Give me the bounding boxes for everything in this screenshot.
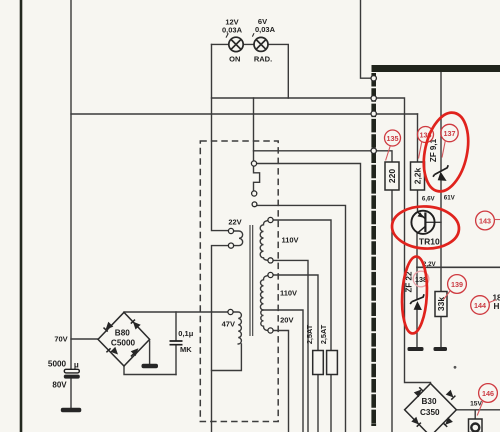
svg-text:143: 143 [479,216,491,225]
svg-text:6,6V: 6,6V [422,195,436,202]
svg-text:137: 137 [444,129,456,138]
B30 diode bottom-left [411,417,419,425]
label pointer slashes for lamps [226,33,254,37]
red hand-drawn ellipse around TR10 [391,205,460,250]
svg-text:110V: 110V [281,235,298,244]
wire: B30 right corner output 15V [456,410,500,419]
svg-text:C350: C350 [420,408,440,417]
svg-text:110V: 110V [280,288,297,297]
page border line left [20,0,23,432]
dashed mains enclosure box [200,141,278,422]
svg-text:0,03A: 0,03A [222,25,243,34]
wire: electrolytic bottom lead [70,379,72,408]
wire: secondary2 top to fuse1 column [273,275,318,432]
svg-text:0,1μ: 0,1μ [178,329,193,338]
svg-text:22V: 22V [228,217,241,226]
B80 diode top-right [133,322,141,330]
svg-text:135: 135 [387,134,399,143]
wire: TR10 base to ZF9,1 column [425,221,441,223]
terminal node secondary2 bottom (270.5,330.5) [268,328,273,333]
red annotation circle 146 [477,384,497,416]
wire: left supply vertical x71 [70,0,72,369]
svg-text:μ: μ [74,361,79,370]
svg-text:ZF 9,1: ZF 9,1 [429,138,438,162]
wire: 22V bottom to 47V tap vertical [212,246,229,312]
fuse F2 2,5AT [327,351,338,375]
svg-text:2,5AT: 2,5AT [305,324,314,344]
wire: branch y151 to 220 resistor [254,151,393,432]
red hand-drawn ellipse around ZF 9,1 / 137 [417,109,475,196]
switch contact middle (254.2,193.5) [252,191,257,196]
bridge rectifier B30 C350 [405,384,457,432]
svg-text:146: 146 [482,389,494,398]
terminal node 47V top (230.5,312) [228,309,233,314]
wire: emitter rail y267 to right edge [417,266,500,268]
switch contact top (254,163.5) [251,161,256,166]
wire: top-left feed into distribution strip [361,0,372,78]
terminal node 22V top (231,231) [228,228,233,233]
wire: secondary2 tap y310 [264,310,304,432]
bridge rectifier B80 C5000 [98,312,150,366]
lamp LA2 RAD [254,37,268,51]
wire: secondary1 top to fuse2 column [273,220,331,432]
junction node (373.7,150.8) [371,148,376,153]
zener diode ZF 9,1 [433,165,448,181]
red annotation circle 136 [418,127,434,159]
wire: primary chain down to page bottom [211,312,213,432]
wire: secondary2 bottom down [273,331,288,432]
junction node (373.7,98.3) [371,96,376,101]
svg-text:61V: 61V [444,194,456,201]
heavy supply bar top right [372,65,500,72]
output connector box 15V [469,419,483,432]
wire: lamp left vertical down to transformer primary [212,44,229,230]
svg-text:MK: MK [180,345,192,354]
B30 diode top-left [414,390,422,398]
ground below 33k [434,347,448,351]
wire: 70V feed to B80 [71,338,98,340]
B80 diode top-left [106,322,114,330]
junction node (373.7,113.7) [371,111,376,116]
fuse F1 2,5AT [313,351,324,375]
transformer primary 47V winding [233,312,241,344]
wire: switch bottom contact to right column [257,205,345,432]
wire: bridge B80 top to 47V terminal y312 [124,311,228,313]
svg-text:RAD.: RAD. [254,54,272,63]
svg-text:20V: 20V [280,315,293,324]
ground below 5000u capacitor [61,408,82,412]
wire: 0,1uF capacitor leads [175,312,177,375]
red annotation circle 144 [471,296,496,315]
red annotation circle 143 [476,211,500,230]
capacitor 0,1u MK plates [170,341,183,345]
wire: lamp loop [212,44,289,98]
wire: 2,2k lead down to TR10 emitter [417,114,419,212]
heavy dashed distribution strip x373.7 [371,73,376,425]
ground below B80 right corner [142,364,159,368]
svg-text:47V: 47V [222,319,235,328]
electrolytic capacitor 5000u 80V [64,369,80,378]
lamp LA1 ON [229,37,243,51]
wire: B80 bottom corner to 0,1uF bottom [124,366,176,375]
svg-text:0,03A: 0,03A [255,25,276,34]
transformer primary 22V winding [234,231,243,246]
wire: secondary1 bottom down [273,260,308,432]
voltage selector switch body [254,98,260,191]
transistor TR10 [411,211,434,234]
svg-text:144: 144 [474,301,486,310]
B80 diode bottom-right [131,348,139,356]
red annotation circle 139 [444,275,467,300]
wire: B80 right corner to ground [149,341,151,364]
svg-text:220: 220 [387,169,397,183]
svg-text:70V: 70V [54,335,67,344]
terminal node 22V bottom (231,245.6) [228,243,233,248]
B30 diode top-right [446,390,454,398]
transformer core [250,226,253,336]
svg-text:139: 139 [451,280,463,289]
wire: horizontal bus y98 to B30 feed [212,98,431,383]
ground below ZF22 [408,347,424,351]
svg-text:5000: 5000 [48,359,67,368]
svg-text:ON: ON [229,54,240,63]
terminal node secondary1 bottom (270.5,260.4) [268,258,273,263]
wire: horizontal bus y114 from x71 to 2,2k drop [71,113,418,115]
B30 diode bottom-right [445,417,453,425]
resistor R 220 [385,162,399,190]
wire: TR10 collector down to ZF22 and ground [416,233,418,346]
svg-text:B30: B30 [421,397,436,406]
wire: switch top contact to right column [257,164,361,432]
transformer secondary winding 110V #1 [260,221,268,261]
zener diode ZF 22 [410,294,424,310]
red annotation circle 137 [441,124,458,157]
svg-text:TR10: TR10 [419,237,440,247]
terminal node secondary1 top (270.5,220) [268,217,273,222]
svg-text:B80: B80 [115,329,130,338]
junction node (373.7,78.3) [371,76,376,81]
transformer secondary winding 110V #2 + 20V [260,276,268,331]
red annotation circle 135 [385,130,401,161]
scan speck [454,366,457,369]
B80 diode bottom-left [110,347,118,355]
resistor R 33k [435,292,447,317]
wire: 47V winding bottom return [212,344,242,371]
svg-text:2,5AT: 2,5AT [319,324,328,344]
svg-text:C5000: C5000 [111,338,136,347]
wire: ZF9,1 column from supply bar [440,72,442,347]
terminal node secondary2 top (270.5,275) [268,272,273,277]
svg-text:H: H [493,302,499,311]
svg-text:2,2k: 2,2k [413,167,423,184]
resistor R 2,2k [411,162,425,190]
svg-text:80V: 80V [52,380,67,389]
switch contact bottom (254.5,204.3) [252,202,257,207]
red hand-drawn ellipse around ZF 22 [400,256,429,334]
red annotation circle 138 (faint) [413,271,429,287]
